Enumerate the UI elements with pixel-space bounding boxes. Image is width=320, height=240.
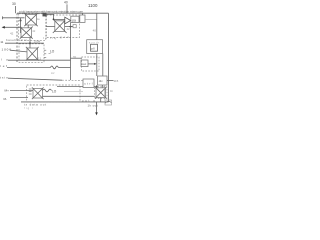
vertical B2 to M6 xyxy=(96,85,98,88)
divider box B2 xyxy=(98,76,108,85)
synthesizer box B1 xyxy=(87,40,103,54)
svg-text:ctrl: ctrl xyxy=(84,82,92,86)
svg-text:1006: 1006 xyxy=(2,48,12,52)
filter squiggle on L4 xyxy=(51,66,59,69)
leader wire from label 40 xyxy=(66,4,68,13)
tick near LO xyxy=(49,52,51,54)
svg-text:baseband in: baseband in xyxy=(6,38,27,42)
arrowhead into LO line xyxy=(94,63,96,65)
wire tx i xyxy=(10,90,33,92)
brace mark bottom right xyxy=(105,101,112,103)
mixer M1 xyxy=(24,13,37,26)
mixer M5 xyxy=(32,87,44,99)
wire from input block xyxy=(47,14,54,19)
wire L1 xyxy=(5,42,44,44)
svg-text:div: div xyxy=(99,79,103,83)
wire B3 to M6 xyxy=(94,86,97,88)
outer box top edge xyxy=(17,12,109,14)
dashed box upconverter / PA group xyxy=(47,15,80,38)
RF input port xyxy=(2,16,4,19)
node LO column xyxy=(70,26,72,28)
svg-text:M-: M- xyxy=(4,97,8,101)
wire L4 right part xyxy=(58,66,70,68)
dashed box lower mixer group xyxy=(19,44,44,63)
oscillator dashed box xyxy=(82,57,100,71)
control box B3 xyxy=(83,79,94,88)
filter squiggle tx xyxy=(43,89,52,92)
svg-text:115: 115 xyxy=(114,79,119,83)
faint vertical right xyxy=(104,85,106,100)
PA box xyxy=(71,16,79,22)
svg-text:lo2: lo2 xyxy=(51,71,55,75)
svg-text:40: 40 xyxy=(93,28,97,32)
wire M5 bottom out xyxy=(43,95,95,97)
wire RF input xyxy=(3,17,25,19)
svg-text:txin: txin xyxy=(0,76,8,80)
svg-text:1100: 1100 xyxy=(88,3,98,8)
svg-text:fig r: fig r xyxy=(24,106,33,110)
outer box left dashed edge xyxy=(16,13,18,62)
pins on dashed box edge xyxy=(44,50,46,57)
tap box xyxy=(73,25,76,28)
svg-text:1a: 1a xyxy=(37,17,41,21)
oscillator box xyxy=(81,60,88,67)
svg-text:xo: xo xyxy=(73,55,77,59)
vertical B1 to B2 xyxy=(96,54,98,77)
svg-text:40: 40 xyxy=(64,1,68,5)
inner box of B1 xyxy=(91,44,98,51)
small box bottom right xyxy=(105,100,112,105)
mixer M2 xyxy=(20,27,33,39)
wire M1 to M2 xyxy=(27,25,29,29)
svg-text:42: 42 xyxy=(67,27,71,31)
svg-text:1k out: 1k out xyxy=(88,103,98,107)
dashed box around M6 xyxy=(95,87,108,99)
svg-text:pa: pa xyxy=(72,18,76,22)
faint wire B0 to LO vertical xyxy=(85,18,97,20)
tx output arrow down xyxy=(96,102,98,113)
node top path xyxy=(53,19,55,21)
bottom bus line xyxy=(21,101,109,103)
svg-text:11: 11 xyxy=(0,40,3,44)
LO distribution vertical xyxy=(70,23,72,81)
svg-text:42: 42 xyxy=(10,31,14,35)
vertical M6 to bottom bus xyxy=(100,98,102,102)
dashed boundary line right xyxy=(62,79,83,81)
outer box right edge xyxy=(108,13,110,102)
node on line L1 xyxy=(29,42,31,44)
svg-text:lo i/q: lo i/q xyxy=(44,36,56,40)
mixer M6 xyxy=(95,87,107,99)
wire tx q xyxy=(10,97,28,99)
svg-text:gen: gen xyxy=(60,35,69,39)
wire into tx output mixer xyxy=(57,86,83,88)
wire extension to tap box xyxy=(71,25,74,27)
node split junction xyxy=(20,20,22,22)
wire output with arrow xyxy=(4,26,22,28)
arrowhead tx out xyxy=(95,112,98,115)
wire vertical split xyxy=(20,18,22,33)
dashed boundary line xyxy=(8,78,62,80)
wire M4 input xyxy=(46,26,55,28)
M5 input pins xyxy=(29,89,32,94)
leader wire from label 30 xyxy=(15,6,17,13)
svg-text:M+: M+ xyxy=(5,88,10,92)
svg-text:1b: 1b xyxy=(110,89,114,93)
wire L2 xyxy=(10,50,27,52)
amplifier triangle xyxy=(65,17,71,24)
vertical B1 to B2 second xyxy=(102,54,104,77)
mixer M4 xyxy=(53,19,67,33)
mixer M3 xyxy=(26,47,39,61)
node M6 top xyxy=(96,86,98,88)
wire M4 output xyxy=(65,25,71,27)
dashed box tx mixer group xyxy=(27,85,80,102)
svg-text:30: 30 xyxy=(12,2,16,6)
dashed box quadrature mixer group xyxy=(19,14,46,41)
wire L3 xyxy=(8,59,71,61)
dark input block xyxy=(43,13,47,17)
wire to amplifier xyxy=(54,18,65,20)
svg-text:pll: pll xyxy=(91,47,94,51)
svg-text:LO: LO xyxy=(52,89,57,93)
svg-text:synth: synth xyxy=(89,41,100,45)
svg-text:osc: osc xyxy=(82,62,87,66)
wire M2 down to bus xyxy=(29,38,31,44)
arrowhead output xyxy=(2,26,5,29)
wire junction to M3 top xyxy=(29,43,31,48)
svg-text:42: 42 xyxy=(32,29,36,33)
LO feed vertical upper xyxy=(96,13,98,40)
faint wire lower xyxy=(64,91,83,93)
svg-text:LO: LO xyxy=(50,50,55,54)
output block box xyxy=(80,15,85,22)
antenna stub xyxy=(81,13,83,15)
wire B2 to M6 dashed box xyxy=(101,85,103,88)
oscillator output arrow xyxy=(88,63,95,65)
wire to synthesizer xyxy=(71,57,82,59)
wire L4 left part xyxy=(7,66,51,68)
B2 output wire xyxy=(107,80,114,82)
